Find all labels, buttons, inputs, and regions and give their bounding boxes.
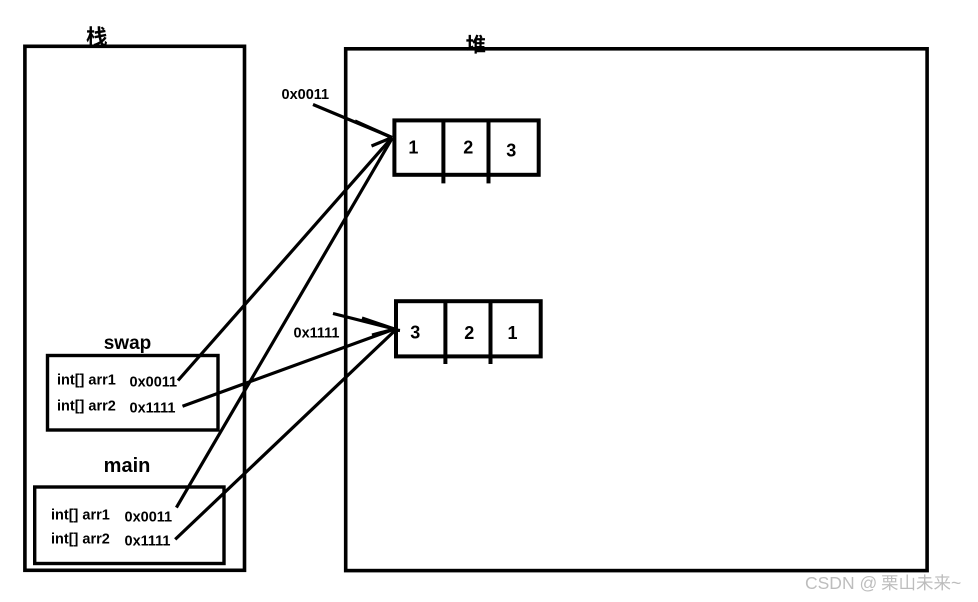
- svg-text:0x0011: 0x0011: [125, 510, 173, 526]
- wire: swap.arr2 -> array B: [183, 329, 395, 406]
- svg-text:2: 2: [463, 138, 473, 158]
- wire: swap.arr1 -> array A: [178, 138, 392, 381]
- wire: 0x1111 label -> array B: [333, 314, 395, 330]
- arrowhead at array A (upper barb): [355, 121, 392, 138]
- watermark CSDN @栗山未来~: [805, 573, 961, 593]
- heap box: [346, 49, 927, 571]
- array B box: [396, 301, 541, 356]
- svg-text:main: main: [104, 455, 151, 477]
- array A divider 2: [487, 120, 491, 183]
- arrowhead at array A (lower barb): [372, 138, 393, 147]
- swap stack frame box: [48, 356, 219, 431]
- svg-text:int[] arr2: int[] arr2: [57, 399, 116, 415]
- svg-text:3: 3: [506, 140, 516, 160]
- svg-text:1: 1: [408, 138, 418, 158]
- svg-text:2: 2: [464, 323, 474, 343]
- arrowhead tick at array B: [391, 330, 400, 331]
- wire: main.arr1 -> array A: [176, 139, 392, 508]
- svg-text:0x1111: 0x1111: [294, 326, 340, 342]
- svg-text:1: 1: [507, 323, 517, 343]
- array B divider 1: [443, 301, 447, 364]
- svg-text:0x1111: 0x1111: [125, 534, 171, 550]
- stack box: [25, 46, 245, 570]
- svg-text:int[] arr1: int[] arr1: [57, 373, 116, 389]
- array A divider 1: [441, 120, 445, 183]
- main stack frame box: [35, 487, 224, 564]
- arrowhead at array B (upper barb): [362, 318, 395, 329]
- svg-text:int[] arr1: int[] arr1: [51, 508, 110, 524]
- array B divider 2: [489, 301, 493, 364]
- heap label 堆: [466, 35, 485, 54]
- svg-text:~: ~: [951, 573, 961, 593]
- svg-text:int[] arr2: int[] arr2: [51, 532, 110, 548]
- svg-text:swap: swap: [104, 333, 152, 354]
- array A box: [394, 120, 538, 174]
- svg-text:3: 3: [410, 323, 420, 343]
- wire: main.arr2 -> array B: [175, 330, 395, 539]
- svg-text:0x0011: 0x0011: [282, 87, 330, 103]
- wire: 0x0011 label -> array A: [313, 105, 392, 138]
- svg-text:0x1111: 0x1111: [130, 401, 176, 417]
- arrowhead at array B (lower barb): [372, 329, 395, 335]
- svg-text:CSDN @: CSDN @: [805, 573, 877, 593]
- svg-text:0x0011: 0x0011: [130, 375, 178, 391]
- stack label 栈: [86, 26, 107, 46]
